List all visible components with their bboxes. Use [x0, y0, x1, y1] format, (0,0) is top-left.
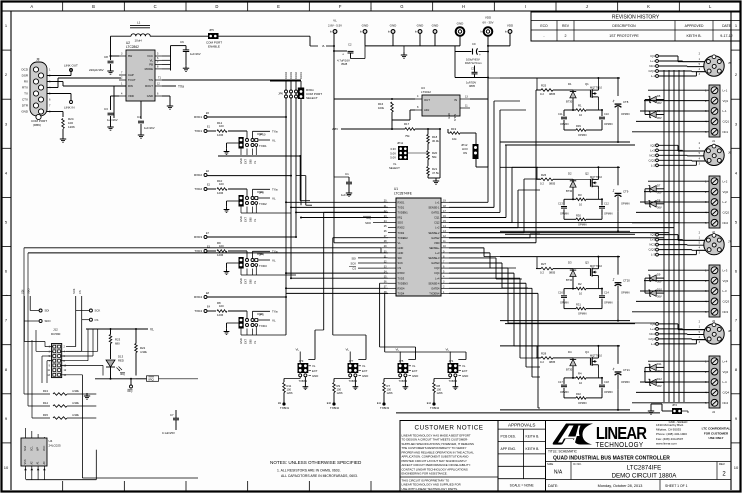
- svg-text:GND: GND: [432, 23, 440, 27]
- svg-text:R4: R4: [578, 371, 582, 375]
- svg-text:www.linear.com: www.linear.com: [656, 442, 677, 446]
- svg-text:TXBN4: TXBN4: [449, 379, 458, 383]
- svg-text:0.2: 0.2: [540, 360, 544, 364]
- svg-text:J6: J6: [728, 150, 731, 154]
- svg-text:36V: 36V: [657, 295, 662, 299]
- svg-text:0805: 0805: [549, 181, 556, 185]
- svg-text:D2: D2: [568, 171, 572, 175]
- svg-text:R26: R26: [541, 173, 547, 177]
- svg-text:TXDEN2: TXDEN2: [398, 236, 409, 240]
- svg-text:TXBN2: TXBN2: [330, 406, 339, 410]
- svg-text:IRQ: IRQ: [366, 216, 371, 220]
- svg-text:RED: RED: [118, 359, 124, 363]
- svg-text:C12: C12: [604, 201, 609, 205]
- svg-text:R32: R32: [576, 392, 581, 396]
- svg-text:SDO: SDO: [45, 319, 52, 323]
- svg-text:JP1: JP1: [449, 359, 454, 363]
- svg-text:0805: 0805: [549, 271, 556, 275]
- svg-text:R15: R15: [43, 413, 49, 417]
- svg-text:R2: R2: [578, 282, 582, 286]
- svg-text:4.99k: 4.99k: [72, 401, 79, 405]
- svg-text:GATE3: GATE3: [431, 261, 440, 265]
- svg-text:SENSE-1: SENSE-1: [428, 205, 440, 209]
- svg-text:C: C: [154, 4, 157, 9]
- svg-text:75k: 75k: [405, 134, 410, 138]
- svg-text:R9: R9: [337, 384, 341, 388]
- svg-text:SCK: SCK: [398, 261, 404, 265]
- svg-text:1ST PROTOTYPE: 1ST PROTOTYPE: [609, 34, 639, 38]
- svg-text:E12: E12: [427, 402, 432, 405]
- svg-text:C/Q3: C/Q3: [723, 300, 730, 304]
- svg-text:E10: E10: [327, 402, 332, 405]
- svg-text:L-4: L-4: [723, 380, 727, 384]
- svg-text:TXa: TXa: [272, 188, 278, 192]
- svg-text:RTX: RTX: [22, 86, 28, 90]
- svg-text:D65: D65: [248, 339, 252, 344]
- svg-text:SDA: SDA: [24, 446, 27, 451]
- svg-text:SDO: SDO: [398, 221, 404, 225]
- svg-text:APPROVED: APPROVED: [685, 24, 704, 28]
- svg-text:WP: WP: [37, 447, 40, 451]
- svg-text:C/Q2: C/Q2: [723, 211, 730, 215]
- svg-text:10k: 10k: [452, 137, 457, 141]
- svg-text:CS: CS: [78, 290, 82, 294]
- svg-text:OPMIN: OPMIN: [621, 201, 630, 205]
- svg-text:1206: 1206: [287, 391, 293, 395]
- svg-text:SCL: SCL: [30, 446, 33, 451]
- svg-text:VL: VL: [272, 197, 276, 201]
- svg-text:OPMIN: OPMIN: [621, 112, 630, 116]
- svg-text:220pF/16V: 220pF/16V: [89, 68, 104, 72]
- svg-text:D65: D65: [248, 217, 252, 222]
- svg-text:BT30: BT30: [566, 367, 573, 371]
- svg-text:CT9: CT9: [623, 189, 629, 193]
- svg-text:Milpitas, CA 95035: Milpitas, CA 95035: [656, 428, 681, 432]
- svg-text:GND: GND: [398, 251, 404, 255]
- svg-text:VL: VL: [322, 44, 326, 48]
- svg-text:DC590: DC590: [51, 332, 61, 336]
- svg-text:RXD2: RXD2: [398, 226, 405, 230]
- svg-text:GND: GND: [457, 21, 465, 25]
- svg-text:ON: ON: [463, 151, 467, 155]
- svg-text:J1: J1: [712, 139, 715, 143]
- svg-text:J5: J5: [728, 61, 731, 65]
- svg-text:DSR: DSR: [22, 74, 29, 78]
- svg-text:L-3: L-3: [651, 253, 655, 257]
- svg-text:LINK OUT: LINK OUT: [64, 64, 78, 68]
- svg-text:EXT: EXT: [462, 369, 468, 373]
- svg-text:SENSE+: SENSE+: [429, 246, 440, 250]
- svg-text:TXDEN4: TXDEN4: [429, 291, 440, 295]
- svg-text:→: →: [4, 292, 9, 298]
- svg-text:OPMIN: OPMIN: [604, 122, 613, 126]
- svg-text:JP3: JP3: [672, 403, 677, 407]
- svg-text:TXD4: TXD4: [398, 291, 405, 295]
- svg-text:NC1: NC1: [649, 64, 655, 68]
- svg-text:OPMIN: OPMIN: [560, 301, 569, 305]
- svg-text:VCC: VCC: [43, 446, 46, 451]
- svg-text:1uF/16V: 1uF/16V: [144, 126, 155, 130]
- svg-text:I: I: [525, 4, 526, 9]
- svg-text:CT21: CT21: [623, 368, 630, 372]
- svg-text:56k: 56k: [432, 155, 437, 159]
- svg-text:DCD: DCD: [22, 68, 29, 72]
- svg-text:VL: VL: [272, 139, 276, 143]
- svg-text:CQ1: CQ1: [434, 216, 440, 220]
- svg-text:VL: VL: [253, 280, 257, 284]
- svg-text:GATE2: GATE2: [431, 236, 440, 240]
- svg-text:KEITH B.: KEITH B.: [687, 34, 702, 38]
- svg-text:JP8: JP8: [259, 191, 264, 195]
- svg-text:Fax: (408) 434-0507: Fax: (408) 434-0507: [656, 437, 684, 441]
- svg-text:10uH: 10uH: [135, 39, 142, 43]
- svg-text:L-4: L-4: [651, 342, 655, 346]
- svg-text:JP11: JP11: [397, 141, 404, 145]
- svg-text:VL: VL: [296, 348, 300, 352]
- svg-text:U1: U1: [394, 187, 398, 191]
- svg-text:VDD: VDD: [507, 23, 514, 27]
- svg-text:VL: VL: [272, 319, 276, 323]
- svg-text:24LC025: 24LC025: [49, 444, 62, 448]
- svg-text:TXD3: TXD3: [194, 249, 202, 253]
- svg-text:VQ4: VQ4: [723, 370, 729, 374]
- svg-text:VL: VL: [396, 348, 400, 352]
- svg-text:EXT: EXT: [312, 369, 318, 373]
- svg-text:E11: E11: [377, 402, 382, 405]
- svg-text:L+3: L+3: [435, 251, 440, 255]
- svg-text:RXD2: RXD2: [294, 72, 298, 79]
- svg-text:VL: VL: [150, 328, 154, 332]
- svg-text:K: K: [647, 4, 650, 9]
- svg-text:TXD1: TXD1: [259, 144, 267, 148]
- svg-text:C3: C3: [104, 107, 108, 111]
- svg-text:+: +: [612, 100, 614, 104]
- svg-text:NC2: NC2: [649, 153, 655, 157]
- svg-text:JP5: JP5: [399, 359, 404, 363]
- svg-text:C10: C10: [604, 112, 609, 116]
- svg-text:N/A: N/A: [554, 470, 563, 476]
- svg-text:TECHNOLOGY: TECHNOLOGY: [596, 442, 644, 450]
- svg-text:OPMIN: OPMIN: [604, 211, 613, 215]
- svg-text:JP5: JP5: [209, 28, 214, 32]
- svg-text:36V: 36V: [657, 116, 662, 120]
- svg-text:R28: R28: [541, 351, 547, 355]
- svg-text:36V: 36V: [657, 369, 662, 373]
- svg-text:VL: VL: [253, 160, 257, 164]
- svg-text:OPMIN: OPMIN: [578, 133, 587, 137]
- svg-text:CAP: CAP: [128, 73, 134, 77]
- svg-text:EXT: EXT: [244, 339, 248, 344]
- svg-text:TXD1: TXD1: [398, 205, 405, 209]
- svg-text:LTC2874IFE: LTC2874IFE: [627, 464, 662, 471]
- svg-text:680: 680: [115, 342, 120, 346]
- svg-text:LT3012: LT3012: [421, 90, 431, 94]
- svg-text:R31: R31: [576, 303, 581, 307]
- svg-text:1. ALL RESISTORS ARE IN OHMS,: 1. ALL RESISTORS ARE IN OHMS, 0603.: [277, 469, 341, 473]
- svg-text:CS: CS: [95, 318, 99, 322]
- svg-text:TOUT: TOUT: [128, 78, 136, 82]
- svg-text:1uF/16V: 1uF/16V: [107, 118, 118, 122]
- svg-text:C2: C2: [348, 43, 352, 47]
- svg-text:2.8V - 5.5V: 2.8V - 5.5V: [328, 23, 342, 27]
- svg-text:VQ1: VQ1: [723, 99, 729, 103]
- svg-text:SHEET 1 OF 1: SHEET 1 OF 1: [665, 484, 688, 488]
- svg-text:D3: D3: [568, 261, 572, 265]
- svg-text:L+2: L+2: [723, 179, 728, 183]
- svg-text:GND: GND: [239, 278, 243, 284]
- svg-text:5.0V: 5.0V: [390, 156, 396, 160]
- svg-text:RXD3: RXD3: [398, 271, 405, 275]
- svg-text:RIN: RIN: [128, 84, 133, 88]
- svg-text:MQT7N10: MQT7N10: [590, 353, 603, 357]
- svg-text:RXD1: RXD1: [194, 115, 202, 119]
- svg-text:R25: R25: [541, 84, 547, 88]
- svg-text:LINK IN: LINK IN: [64, 106, 75, 110]
- svg-text:4.99k: 4.99k: [72, 389, 79, 393]
- svg-text:(DB9): (DB9): [33, 123, 41, 127]
- svg-text:SENSE-3: SENSE-3: [428, 256, 440, 260]
- svg-text:MQT7N10: MQT7N10: [590, 264, 603, 268]
- svg-text:R19: R19: [451, 127, 457, 131]
- svg-text:SENSE-4: SENSE-4: [428, 281, 440, 285]
- svg-text:D5: D5: [657, 94, 661, 98]
- svg-text:LINEAR: LINEAR: [596, 424, 647, 443]
- svg-text:Q2: Q2: [585, 171, 589, 175]
- svg-text:C7: C7: [170, 413, 174, 417]
- svg-text:0805: 0805: [549, 92, 556, 96]
- svg-text:R13: R13: [43, 389, 49, 393]
- svg-text:H: H: [462, 4, 465, 9]
- svg-text:EXT: EXT: [244, 159, 248, 164]
- svg-text:36V: 36V: [657, 190, 662, 194]
- svg-text:4.99k: 4.99k: [72, 413, 79, 417]
- svg-text:C/Q2: C/Q2: [648, 158, 655, 162]
- svg-text:L+1: L+1: [650, 59, 655, 63]
- svg-text:EXT: EXT: [244, 279, 248, 284]
- svg-text:TXDEN3: TXDEN3: [398, 281, 409, 285]
- svg-text:OPMIN: OPMIN: [604, 301, 613, 305]
- svg-text:Phone: (408) 432-1900: Phone: (408) 432-1900: [656, 432, 687, 436]
- svg-text:J12: J12: [53, 328, 58, 332]
- svg-text:100k: 100k: [378, 106, 385, 110]
- svg-text:C8: C8: [104, 55, 108, 59]
- svg-text:VL: VL: [253, 340, 257, 344]
- svg-text:DATE:: DATE:: [548, 484, 558, 488]
- svg-text:B: B: [92, 4, 95, 9]
- svg-text:A: A: [30, 4, 33, 9]
- svg-text:+: +: [342, 53, 344, 57]
- svg-text:1206: 1206: [217, 133, 224, 137]
- svg-text:C17: C17: [558, 380, 563, 384]
- svg-text:R17: R17: [404, 122, 410, 126]
- svg-text:VL: VL: [272, 259, 276, 263]
- svg-text:R14: R14: [43, 401, 49, 405]
- svg-text:JP7: JP7: [349, 359, 354, 363]
- svg-text:TXa: TXa: [272, 130, 278, 134]
- svg-text:DTR: DTR: [22, 104, 29, 108]
- svg-text:SELECT: SELECT: [389, 166, 400, 170]
- svg-text:GND: GND: [412, 374, 418, 378]
- svg-text:2: 2: [565, 34, 567, 38]
- svg-text:D7: D7: [657, 183, 661, 187]
- svg-text:CS: CS: [398, 266, 402, 270]
- svg-text:SHDN: SHDN: [454, 114, 457, 121]
- svg-text:D9: D9: [657, 273, 661, 277]
- svg-text:100: 100: [219, 124, 224, 128]
- svg-text:VL: VL: [333, 19, 337, 23]
- svg-text:TXBN4: TXBN4: [430, 406, 439, 410]
- svg-text:TIN: TIN: [148, 78, 153, 82]
- svg-text:NC3: NC3: [649, 243, 655, 247]
- svg-text:R39: R39: [576, 124, 581, 128]
- svg-text:C13: C13: [558, 201, 563, 205]
- svg-text:ADJ: ADJ: [424, 108, 430, 112]
- svg-text:CQ2: CQ2: [434, 221, 440, 225]
- svg-text:OPMIN: OPMIN: [560, 390, 569, 394]
- svg-text:9-17-12: 9-17-12: [720, 34, 732, 38]
- svg-text:SCK: SCK: [95, 309, 101, 313]
- svg-text:R3: R3: [578, 193, 582, 197]
- svg-text:VDD: VDD: [485, 16, 492, 20]
- svg-text:SCK: SCK: [350, 261, 356, 265]
- svg-text:1206: 1206: [387, 391, 393, 395]
- svg-text:MODE: MODE: [145, 67, 154, 71]
- svg-text:JP6: JP6: [278, 92, 283, 96]
- svg-text:MQT7N10: MQT7N10: [590, 86, 603, 90]
- svg-text:LTC2862: LTC2862: [126, 45, 139, 49]
- svg-text:OPMIN: OPMIN: [578, 401, 587, 405]
- svg-text:0805: 0805: [469, 84, 475, 88]
- svg-text:R7: R7: [387, 384, 391, 388]
- svg-text:10: 10: [579, 381, 583, 385]
- svg-text:L+4: L+4: [723, 359, 728, 363]
- svg-text:D4: D4: [568, 350, 572, 354]
- svg-text:GND: GND: [239, 216, 243, 222]
- svg-text:FOR CUSTOMER: FOR CUSTOMER: [704, 431, 729, 435]
- svg-text:VL: VL: [362, 364, 366, 368]
- svg-text:C6: C6: [180, 40, 184, 44]
- svg-text:VDD: VDD: [128, 94, 134, 98]
- svg-text:C16: C16: [558, 291, 563, 295]
- svg-text:C18: C18: [604, 380, 609, 384]
- svg-text:ENABLE: ENABLE: [208, 45, 220, 49]
- svg-text:JP10: JP10: [259, 133, 266, 137]
- svg-text:VL: VL: [412, 364, 416, 368]
- svg-text:D12: D12: [657, 377, 662, 381]
- svg-text:TXBN1: TXBN1: [299, 379, 308, 383]
- svg-text:CT8: CT8: [623, 100, 629, 104]
- svg-text:GND: GND: [447, 113, 451, 119]
- svg-text:L-1: L-1: [651, 74, 655, 78]
- svg-text:IN: IN: [454, 98, 457, 102]
- svg-text:TXD2: TXD2: [398, 231, 405, 235]
- svg-text:NC2: NC2: [723, 221, 729, 225]
- svg-text:GND: GND: [362, 374, 368, 378]
- svg-text:RXD4: RXD4: [398, 286, 405, 290]
- svg-text:8W: 8W: [128, 54, 133, 58]
- svg-text:0.1uF/25V: 0.1uF/25V: [162, 431, 175, 435]
- svg-text:TXD4: TXD4: [194, 309, 202, 313]
- svg-text:SCALE = NONE: SCALE = NONE: [510, 484, 535, 488]
- svg-text:1206: 1206: [217, 313, 224, 317]
- svg-text:L+2: L+2: [435, 226, 440, 230]
- svg-text:R27: R27: [541, 262, 547, 266]
- svg-text:EXT: EXT: [412, 369, 418, 373]
- svg-text:VL: VL: [462, 364, 466, 368]
- svg-text:J8: J8: [36, 58, 40, 62]
- svg-text:TXD1: TXD1: [194, 129, 202, 133]
- svg-text:C14: C14: [604, 291, 609, 295]
- svg-text:SDI: SDI: [398, 256, 403, 260]
- svg-text:RXD2: RXD2: [194, 173, 202, 177]
- svg-text:IQ1: IQ1: [650, 54, 655, 58]
- svg-text:Q4: Q4: [585, 350, 589, 354]
- svg-text:MQT7N10: MQT7N10: [590, 175, 603, 179]
- svg-text:IRQ: IRQ: [128, 389, 134, 393]
- svg-text:1uF/16V: 1uF/16V: [341, 193, 352, 197]
- svg-text:L1: L1: [137, 21, 141, 25]
- svg-text:TXBN1: TXBN1: [280, 406, 289, 410]
- svg-text:GND: GND: [417, 23, 425, 27]
- svg-text:D65: D65: [248, 159, 252, 164]
- svg-text:+: +: [612, 368, 614, 372]
- svg-text:SDI: SDI: [352, 256, 357, 260]
- svg-text:3528: 3528: [341, 62, 348, 66]
- svg-text:C/Q4: C/Q4: [648, 337, 655, 341]
- svg-text:0.2: 0.2: [540, 92, 544, 96]
- svg-text:1uF/16V: 1uF/16V: [190, 52, 201, 56]
- svg-text:TITLE: SCHEMATIC: TITLE: SCHEMATIC: [548, 449, 578, 453]
- svg-text:TXBN2: TXBN2: [349, 379, 358, 383]
- svg-text:L-2: L-2: [723, 200, 727, 204]
- svg-text:RX: RX: [24, 80, 28, 84]
- svg-text:R11: R11: [287, 384, 292, 388]
- svg-text:1206: 1206: [437, 391, 443, 395]
- svg-text:TXD2: TXD2: [194, 187, 202, 191]
- svg-text:+: +: [612, 279, 614, 283]
- svg-text:C9: C9: [472, 42, 476, 46]
- svg-text:EXT: EXT: [244, 217, 248, 222]
- svg-text:100: 100: [219, 182, 224, 186]
- svg-text:PCB DES.: PCB DES.: [501, 435, 516, 439]
- svg-text:BT30: BT30: [566, 100, 573, 104]
- svg-text:OPMIN: OPMIN: [560, 122, 569, 126]
- svg-text:TXDEN1: TXDEN1: [398, 211, 409, 215]
- svg-text:OPMIN: OPMIN: [621, 380, 630, 384]
- svg-text:BT30: BT30: [566, 278, 573, 282]
- svg-text:ROUT: ROUT: [145, 84, 153, 88]
- svg-text:2.8V: 2.8V: [332, 127, 338, 131]
- svg-text:F: F: [339, 4, 342, 9]
- svg-text:L+1: L+1: [723, 88, 728, 92]
- svg-text:RXD4: RXD4: [284, 72, 288, 79]
- svg-text:GATE4: GATE4: [431, 286, 440, 290]
- svg-text:TXD3: TXD3: [398, 276, 405, 280]
- svg-text:SCK: SCK: [72, 288, 76, 294]
- svg-text:ENGINEERING FOR ASSISTANCE.: ENGINEERING FOR ASSISTANCE.: [402, 472, 448, 476]
- svg-text:TXD2: TXD2: [259, 202, 267, 206]
- svg-text:100: 100: [387, 388, 392, 392]
- svg-text:J: J: [586, 4, 588, 9]
- svg-text:36V: 36V: [657, 205, 662, 209]
- svg-text:APP ENG.: APP ENG.: [501, 447, 517, 451]
- svg-text:LTC CONFIDENTIAL: LTC CONFIDENTIAL: [702, 427, 731, 431]
- svg-text:OPMIN: OPMIN: [560, 211, 569, 215]
- svg-text:100: 100: [219, 304, 224, 308]
- svg-text:100: 100: [337, 388, 342, 392]
- svg-text:VQ2: VQ2: [723, 190, 729, 194]
- svg-text:KEITH B.: KEITH B.: [526, 435, 540, 439]
